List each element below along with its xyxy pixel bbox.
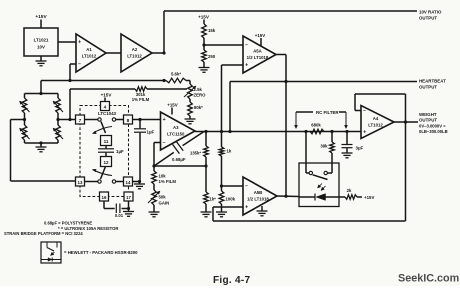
svg-text:SeekIC.com: SeekIC.com bbox=[398, 273, 459, 285]
svg-text:OUTPUT: OUTPUT bbox=[419, 85, 437, 90]
label LTC1043 bbox=[98, 111, 117, 116]
svg-text:1µF: 1µF bbox=[116, 149, 124, 154]
svg-text:1/2 LT1018: 1/2 LT1018 bbox=[247, 55, 269, 60]
node A5B inverting tap bbox=[220, 184, 223, 187]
wire A5B - input bbox=[222, 185, 244, 187]
voltage reference LT1021 10V box bbox=[24, 28, 58, 56]
svg-text:11: 11 bbox=[104, 139, 109, 144]
relay switch arm bbox=[313, 175, 328, 180]
wire bridge excitation line bbox=[41, 80, 166, 82]
ground below 80k* bbox=[185, 116, 196, 124]
resistor 80k* vertical bbox=[188, 102, 203, 116]
node A5A tap bbox=[220, 130, 223, 133]
svg-text:LT1012: LT1012 bbox=[127, 54, 142, 59]
svg-text:A2: A2 bbox=[132, 47, 138, 52]
wire A1 inverting input down to bridge line bbox=[70, 64, 76, 81]
node 3uF top bbox=[345, 130, 348, 133]
svg-text:LTC1043: LTC1043 bbox=[98, 111, 117, 116]
strain gauge upper-right bbox=[53, 94, 63, 114]
svg-text:39k: 39k bbox=[320, 144, 328, 149]
capacitor 0.01 at pins 16-17 bbox=[115, 204, 129, 219]
wire 39k into relay bbox=[328, 153, 333, 173]
svg-text:50k: 50k bbox=[159, 195, 167, 200]
power +15V label at divider bbox=[198, 15, 210, 25]
svg-text:4: 4 bbox=[104, 105, 107, 111]
wire pot to 80k bbox=[189, 99, 191, 102]
node 135k bottom bbox=[204, 164, 207, 167]
switch contact circle right bottom bbox=[112, 180, 115, 183]
svg-text:−: − bbox=[245, 43, 248, 49]
pin 16 box bbox=[100, 192, 109, 201]
svg-text:100k: 100k bbox=[226, 197, 236, 202]
node 301k to bridge wire junction bbox=[68, 118, 71, 121]
wire A4 output bbox=[394, 121, 418, 123]
resistor 1k vertical bbox=[219, 132, 232, 187]
wire bridge left tap to pin 13 bbox=[11, 120, 76, 182]
svg-text:−: − bbox=[78, 62, 81, 68]
resistor 39k vertical bbox=[320, 132, 334, 154]
svg-text:0.68µF: 0.68µF bbox=[172, 157, 186, 162]
svg-text:14: 14 bbox=[126, 180, 131, 185]
wire pin 17 down bbox=[127, 201, 130, 212]
ground below 50k GAIN bbox=[149, 205, 160, 217]
op-amp A5A 1/2 LT1018 bbox=[243, 36, 276, 73]
resistor 2k horizontal bbox=[345, 188, 357, 199]
label 10V RATIO OUTPUT bbox=[419, 10, 442, 21]
wire bridge right tap to pin 7 bbox=[58, 119, 76, 121]
svg-text:7: 7 bbox=[79, 118, 82, 124]
svg-text:10V: 10V bbox=[37, 45, 45, 50]
wire pin 14 to ground bbox=[133, 181, 140, 183]
label HEARTBEAT OUTPUT bbox=[419, 79, 446, 90]
capacitor 1uF at A3 input bbox=[134, 120, 154, 135]
switch contact circle left bottom bbox=[98, 180, 101, 183]
LTC1043 dashed outline bbox=[80, 106, 129, 197]
svg-text:−: − bbox=[245, 184, 248, 190]
svg-text:250: 250 bbox=[208, 54, 216, 59]
pin 17 box bbox=[124, 192, 133, 201]
resistor 301k 1% FILM bbox=[132, 87, 187, 103]
resistor 5.6k* horizontal bbox=[166, 72, 190, 83]
note ultronix resistor bbox=[58, 226, 118, 231]
svg-text:13: 13 bbox=[78, 180, 83, 185]
solid-state relay HSSR-8200 box bbox=[299, 163, 339, 207]
wire A3 inverting input bbox=[154, 143, 161, 167]
resistor 100k vertical bbox=[219, 186, 235, 204]
ground at A5B bbox=[257, 206, 268, 216]
op-amp A1 LT1012 bbox=[76, 34, 106, 72]
potentiometer 2.5k ZERO bbox=[184, 84, 206, 99]
pin 7 box bbox=[76, 115, 85, 124]
svg-text:0.01: 0.01 bbox=[115, 213, 124, 218]
svg-text:10V RATIO: 10V RATIO bbox=[419, 10, 442, 15]
wire switch to pin 14 bbox=[116, 181, 124, 183]
node pin14/1uF junction bbox=[138, 180, 141, 183]
node A4 output bbox=[404, 120, 407, 123]
node heartbeat/comparator junction bbox=[284, 80, 287, 83]
resistor 250 vertical bbox=[202, 45, 216, 62]
svg-text:WEIGHT: WEIGHT bbox=[419, 112, 437, 117]
node A3 output bbox=[204, 130, 207, 133]
relay LED arrow bbox=[318, 184, 326, 191]
svg-text:1k: 1k bbox=[227, 149, 232, 154]
svg-text:GAIN: GAIN bbox=[159, 201, 170, 206]
ground below 250 bbox=[199, 62, 210, 72]
pin 13 box bbox=[76, 177, 85, 186]
svg-text:+15V: +15V bbox=[255, 33, 265, 38]
svg-text:0V–3.0000V ≈: 0V–3.0000V ≈ bbox=[419, 123, 446, 128]
svg-text:+: + bbox=[245, 205, 248, 211]
pin 4 box bbox=[101, 102, 110, 111]
ground at pin 17 bbox=[123, 212, 134, 217]
wire bridge top edge bbox=[25, 93, 59, 95]
svg-text:+: + bbox=[78, 40, 81, 46]
svg-text:A5B: A5B bbox=[254, 190, 263, 195]
relay diode bbox=[315, 194, 326, 201]
wire 5.6k to zero pot bbox=[189, 81, 191, 85]
svg-text:1% FILM: 1% FILM bbox=[159, 179, 177, 184]
svg-text:+: + bbox=[363, 130, 366, 136]
svg-text:+15V: +15V bbox=[364, 195, 374, 200]
node A2 output junction bbox=[162, 51, 165, 54]
node heartbeat tap bbox=[228, 130, 231, 133]
svg-text:HEARTBEAT: HEARTBEAT bbox=[419, 79, 446, 84]
capacitor 0.68uF diagonal feedback bbox=[154, 132, 204, 167]
svg-text:OUTPUT: OUTPUT bbox=[419, 16, 437, 21]
power +15V label (reference supply) bbox=[35, 14, 47, 28]
wire heartbeat line bbox=[230, 82, 417, 132]
wire 1uF bottom to pin14 node bbox=[139, 133, 141, 182]
wire divider to A5A - input bbox=[204, 44, 243, 46]
svg-text:2.5k: 2.5k bbox=[194, 87, 203, 92]
svg-text:1% FILM: 1% FILM bbox=[132, 97, 150, 102]
ground below 100k bbox=[216, 204, 227, 217]
svg-text:+: + bbox=[163, 117, 166, 123]
svg-text:LT1021: LT1021 bbox=[34, 38, 49, 43]
watermark SeekIC.com bbox=[398, 273, 459, 285]
node 39k top bbox=[330, 130, 333, 133]
svg-text:680k: 680k bbox=[311, 122, 321, 127]
wire pin 13 to switch contact bbox=[85, 181, 98, 183]
node divider junction bbox=[202, 38, 205, 47]
caption Fig. 4-7 bbox=[213, 275, 251, 286]
node A5B output junction bbox=[284, 195, 287, 198]
ground below 1k* bbox=[201, 204, 212, 217]
svg-text:LTC1150: LTC1150 bbox=[167, 132, 185, 137]
svg-text:STRAIN BRIDGE PLATFORM = NCI 3: STRAIN BRIDGE PLATFORM = NCI 3224 bbox=[4, 231, 83, 236]
resistor 1k* vertical bbox=[204, 166, 216, 204]
svg-text:8: 8 bbox=[127, 118, 130, 124]
wire A5B output bbox=[277, 195, 299, 198]
ground below LT1021 bbox=[36, 56, 47, 66]
wire bridge bottom edge bbox=[25, 142, 59, 144]
svg-text:LT1012: LT1012 bbox=[368, 123, 383, 128]
wire bridge top node riser bbox=[39, 81, 42, 96]
svg-text:A3: A3 bbox=[173, 125, 179, 130]
svg-text:ZERO: ZERO bbox=[194, 93, 207, 98]
wire bridge right mid bbox=[56, 113, 59, 125]
ground below bridge bbox=[36, 143, 47, 152]
label RC FILTER bracket bbox=[295, 110, 348, 129]
svg-text:0LB–300.00LB: 0LB–300.00LB bbox=[419, 129, 448, 134]
wire top rail to 10V RATIO OUTPUT bbox=[164, 10, 417, 12]
ground at pin 14 bbox=[134, 182, 145, 189]
op-amp A3 LTC1150 bbox=[161, 112, 196, 150]
node excitation/A2 junction bbox=[162, 79, 165, 82]
svg-text:80k*: 80k* bbox=[194, 105, 203, 110]
svg-text:3µF: 3µF bbox=[356, 146, 364, 151]
node 1uF tap bbox=[138, 118, 141, 121]
wire A4 feedback loop bbox=[355, 94, 406, 122]
wire pin 16 down bbox=[104, 201, 115, 209]
svg-text:1/2 LT1018: 1/2 LT1018 bbox=[247, 197, 269, 202]
svg-text:OUTPUT: OUTPUT bbox=[419, 118, 437, 123]
pin 12 box bbox=[101, 157, 112, 167]
svg-text:12: 12 bbox=[103, 160, 109, 165]
pin 14 box bbox=[124, 177, 133, 186]
svg-text:15k: 15k bbox=[208, 28, 216, 33]
node 680k left bbox=[304, 130, 307, 133]
relay contact circle right bbox=[324, 171, 327, 174]
wire bridge left mid bbox=[23, 113, 26, 125]
svg-text:17: 17 bbox=[126, 195, 131, 200]
svg-text:RC FILTER: RC FILTER bbox=[316, 110, 339, 115]
strain gauge upper-left bbox=[20, 94, 30, 114]
wire A2 output to junction bbox=[152, 52, 164, 54]
op-amp A5B 1/2 LT1018 bbox=[243, 177, 277, 215]
svg-text:10k: 10k bbox=[159, 174, 167, 179]
relay contact circle left bbox=[309, 171, 312, 174]
switch contact circle right top bbox=[112, 118, 115, 121]
strain gauge lower-right bbox=[53, 125, 63, 143]
wire A4 output to A5B + input bbox=[213, 122, 406, 221]
ground below 3uF bbox=[342, 153, 353, 158]
svg-text:−: − bbox=[363, 108, 366, 114]
strain gauge lower-left bbox=[20, 125, 30, 143]
note hewlett packard bbox=[64, 250, 138, 255]
power +15V label at pin 4 bbox=[101, 93, 113, 102]
resistor 15k vertical bbox=[202, 24, 216, 38]
wire A5A output bbox=[276, 55, 286, 197]
potentiometer 50k GAIN bbox=[148, 184, 169, 206]
label WEIGHT OUTPUT bbox=[419, 112, 448, 134]
svg-text:A1: A1 bbox=[86, 47, 92, 52]
switch contact circle left top bbox=[98, 118, 101, 121]
node bridge bottom bbox=[39, 141, 42, 144]
power +15V at A5A bbox=[255, 33, 265, 46]
svg-text:* = ULTRONIX 105A RESISTOR: * = ULTRONIX 105A RESISTOR bbox=[58, 226, 118, 231]
capacitor 3uF bbox=[342, 132, 364, 154]
resistor 680k horizontal bbox=[310, 122, 324, 134]
node junction A1 feedback bbox=[68, 79, 71, 82]
wire A5A + input bbox=[222, 65, 244, 132]
wire A3 output line bbox=[195, 131, 361, 133]
flying capacitor 1uF bbox=[98, 146, 124, 157]
wire A2 output rail riser bbox=[163, 11, 165, 53]
svg-text:A4: A4 bbox=[373, 116, 379, 121]
wire pin 7 to switch contact bbox=[85, 119, 98, 121]
svg-text:16: 16 bbox=[102, 195, 107, 200]
node A3 inverting node bbox=[152, 164, 155, 167]
label 135k* bbox=[190, 151, 201, 156]
svg-text:+15V: +15V bbox=[167, 102, 177, 107]
svg-text:2k: 2k bbox=[347, 188, 352, 193]
svg-text:+15V: +15V bbox=[35, 14, 47, 20]
resistor 10k 1% FILM bbox=[152, 166, 177, 184]
svg-text:+: + bbox=[245, 63, 248, 69]
wire 680k node into relay bbox=[306, 132, 309, 174]
note 0.68uF polystyrene bbox=[44, 221, 92, 226]
wire switch to pin 8 bbox=[116, 119, 124, 121]
svg-text:LT1012: LT1012 bbox=[82, 54, 97, 59]
wire LT1021 output to A1 + input bbox=[58, 41, 76, 43]
wire diode line bbox=[299, 196, 345, 198]
svg-text:Fig. 4-7: Fig. 4-7 bbox=[213, 275, 251, 286]
legend HP relay box bbox=[41, 242, 61, 263]
svg-text:= HEWLETT - PACKARD HSSR-8200: = HEWLETT - PACKARD HSSR-8200 bbox=[64, 250, 138, 255]
svg-text:1µF: 1µF bbox=[147, 129, 155, 134]
wire pin 8 to A3 + input bbox=[133, 119, 161, 121]
power +15V at relay bbox=[357, 195, 374, 200]
wire 301k line corner bbox=[70, 89, 135, 120]
svg-text:−: − bbox=[163, 140, 166, 146]
svg-text:5.6k*: 5.6k* bbox=[171, 72, 181, 77]
resistor 135k* vertical bbox=[204, 132, 209, 166]
svg-text:+15V: +15V bbox=[101, 93, 113, 98]
switch wiper arm top bbox=[93, 122, 113, 134]
op-amp A2 LT1012 bbox=[121, 34, 152, 72]
svg-text:+15V: +15V bbox=[198, 15, 210, 20]
pin 8 box bbox=[124, 115, 133, 124]
power +15V at A3 bbox=[167, 102, 177, 114]
wire summing line bbox=[154, 165, 206, 167]
op-amp A4 LT1012 bbox=[361, 106, 394, 139]
switch wiper arm bottom bbox=[93, 167, 113, 180]
pin 11 box bbox=[101, 136, 112, 146]
svg-text:A5A: A5A bbox=[253, 48, 262, 53]
svg-text:135k*: 135k* bbox=[190, 151, 201, 156]
note strain bridge platform bbox=[4, 231, 83, 236]
svg-text:1k*: 1k* bbox=[210, 197, 217, 202]
wire A1 output to A2 bbox=[106, 52, 121, 54]
